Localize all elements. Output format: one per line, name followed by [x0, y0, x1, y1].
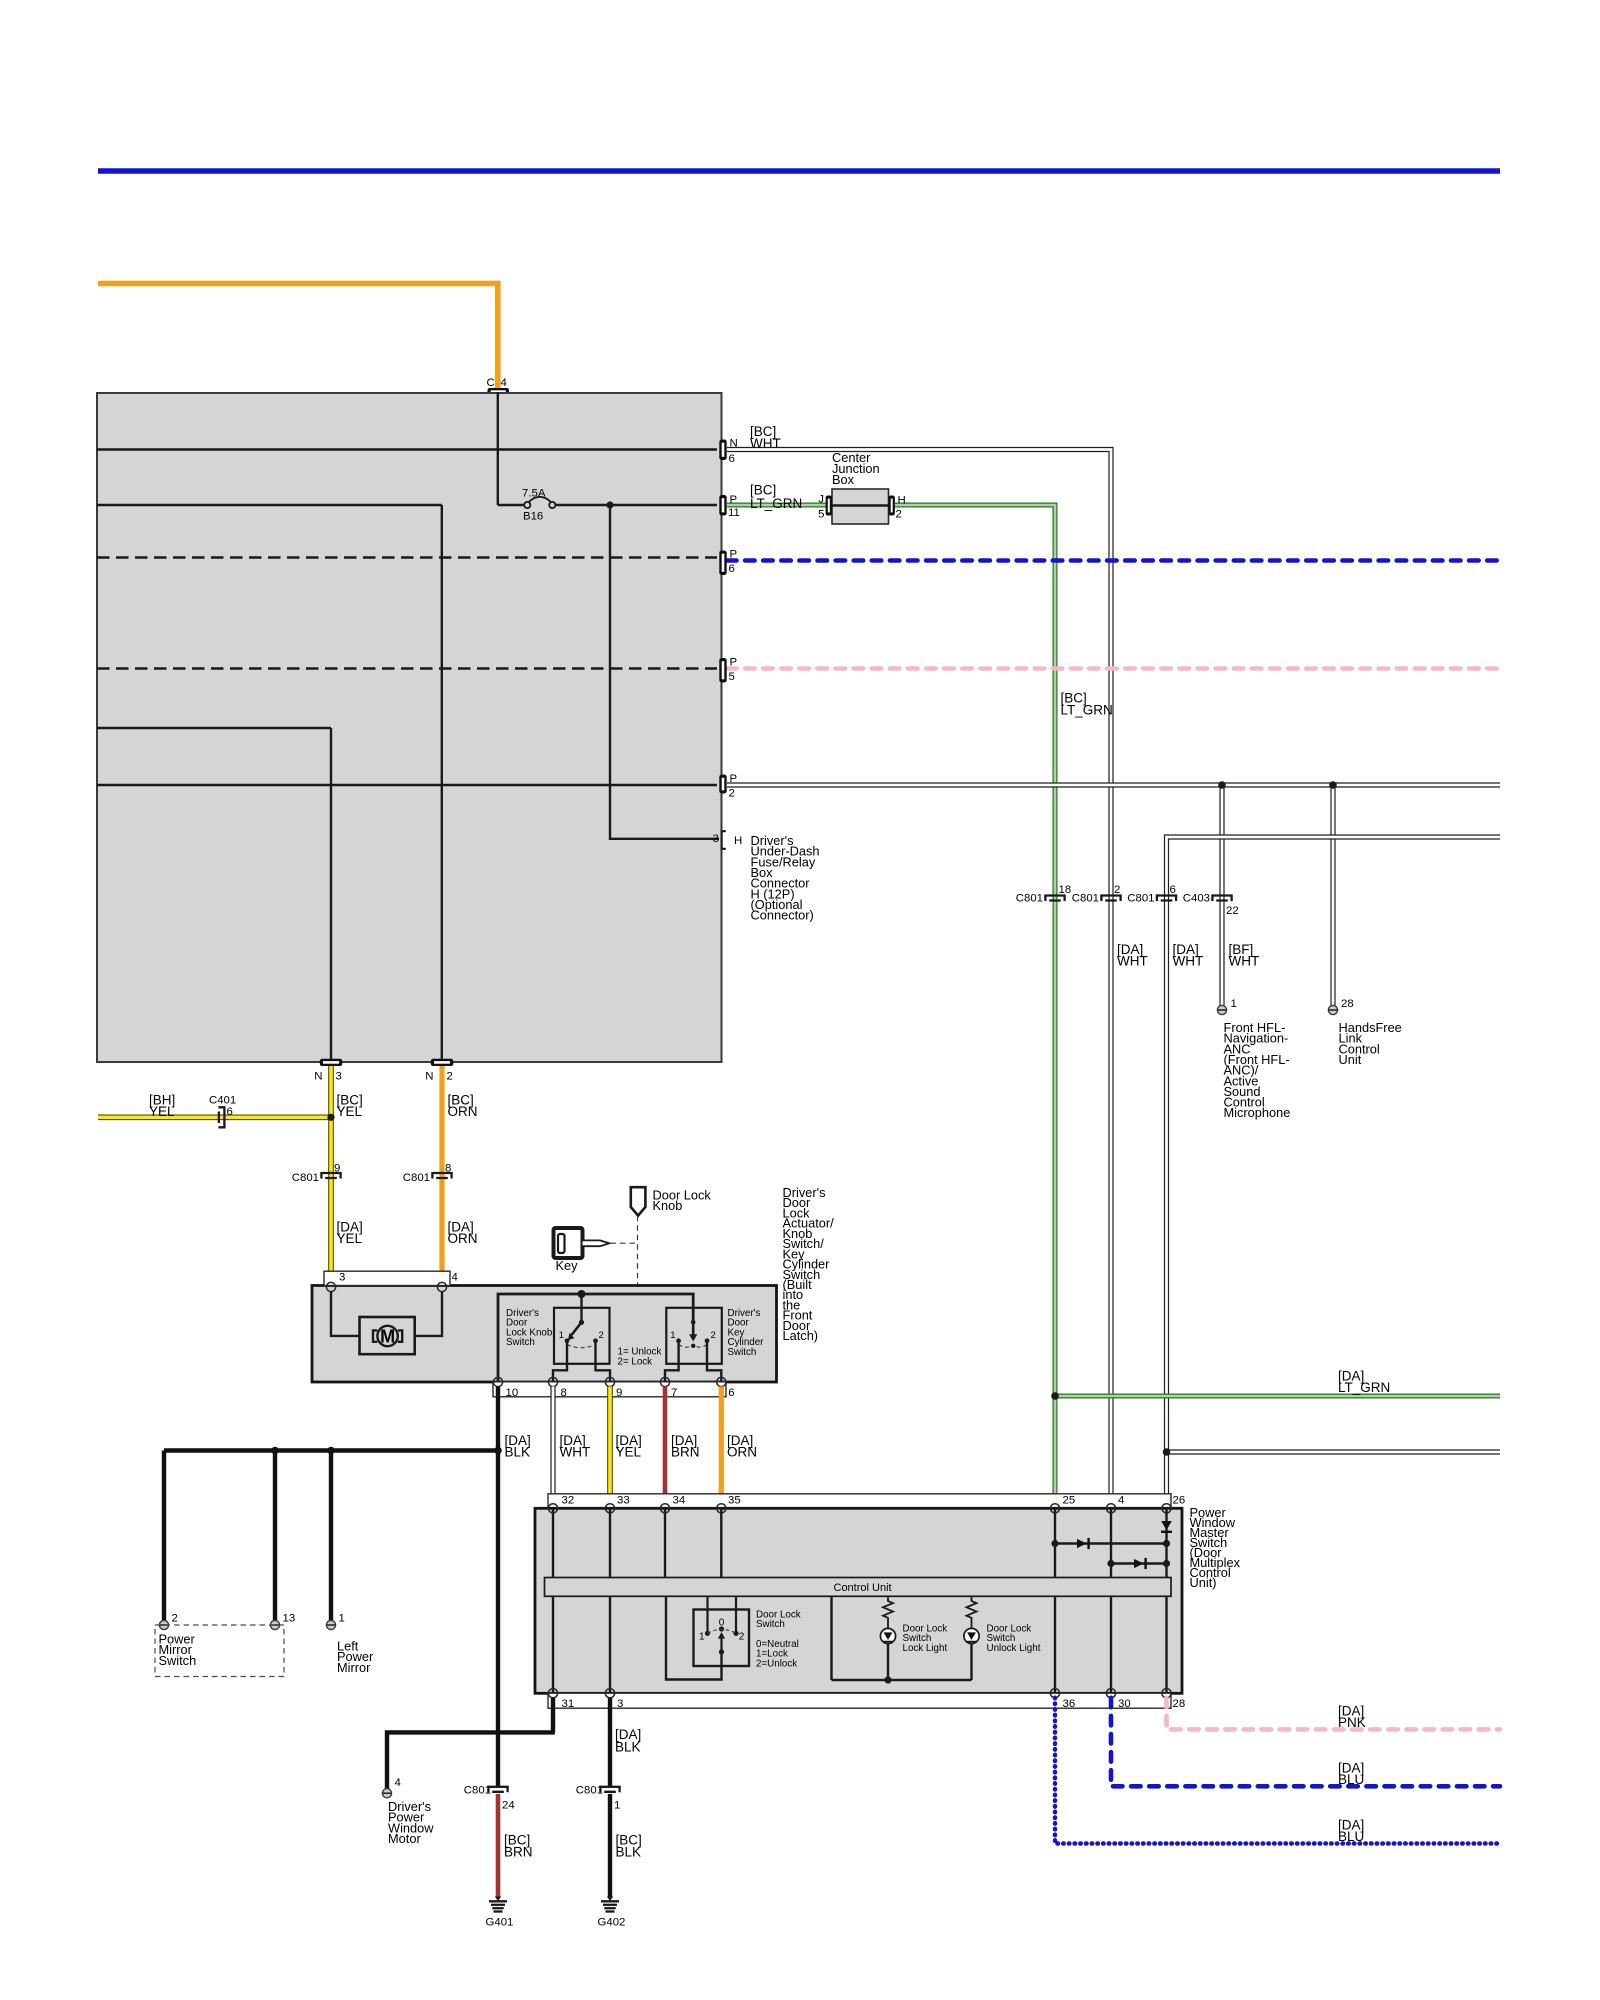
connector N pin 3: [314, 1059, 342, 1083]
pin 2: Power Mirror Switch: [159, 1613, 177, 1630]
wire: [BH] YEL horizontal: [98, 1115, 331, 1121]
wire: blue dashed from P6: [727, 558, 1500, 563]
connector C801 pin 24: [464, 1785, 515, 1812]
svg-text:5: 5: [818, 509, 824, 521]
diode D3 (pin 4 line to pin 26 line): [1107, 1558, 1170, 1569]
node: pin26 riser / right branch: [1163, 1448, 1171, 1456]
svg-text:WHT: WHT: [1229, 954, 1260, 969]
pin 3 (actuator): [326, 1282, 335, 1291]
wire: black ground bus to mirrors: [164, 1451, 498, 1621]
svg-text:J: J: [818, 494, 824, 506]
svg-text:YEL: YEL: [616, 1445, 642, 1460]
svg-text:7.5A: 7.5A: [522, 488, 546, 500]
label: Driver's Door Lock Knob Switch: [506, 1308, 553, 1348]
svg-text:2: 2: [172, 1613, 178, 1625]
svg-text:H: H: [734, 835, 742, 847]
node: bus/BLK riser: [494, 1447, 502, 1455]
connector P pin 6: [719, 549, 737, 576]
svg-text:C401: C401: [209, 1095, 236, 1107]
svg-text:LT_GRN: LT_GRN: [1338, 1380, 1390, 1395]
node: fuse output junction: [606, 501, 613, 508]
svg-text:N: N: [730, 438, 738, 450]
svg-text:ORN: ORN: [448, 1231, 478, 1246]
svg-text:Knob: Knob: [653, 1198, 683, 1213]
connector H pin 3 (bracket): [713, 831, 743, 849]
wire: pin 31 to driver's power window motor: [387, 1698, 555, 1789]
wire: orange feed to connector C4: [98, 284, 498, 389]
svg-text:9: 9: [334, 1163, 340, 1175]
svg-text:Connector): Connector): [751, 908, 814, 923]
svg-text:P: P: [730, 549, 738, 561]
pin 13: Power Mirror Switch: [270, 1613, 295, 1630]
pin 3 (master): [605, 1689, 614, 1698]
wire: [DA] BLK from pin 10 down: [496, 1387, 500, 1787]
svg-text:3: 3: [339, 1272, 345, 1284]
LED: Door Lock Switch Unlock Light: [964, 1628, 979, 1680]
control unit bar: [545, 1578, 1172, 1597]
svg-text:3: 3: [713, 833, 719, 845]
svg-text:2: 2: [1114, 884, 1120, 896]
svg-text:2=Unlock: 2=Unlock: [756, 1658, 797, 1669]
svg-text:36: 36: [1063, 1698, 1076, 1710]
LED: Door Lock Switch Lock Light: [880, 1628, 895, 1680]
svg-text:WHT: WHT: [750, 436, 781, 451]
connector P pin 11: [719, 494, 740, 519]
svg-text:Key: Key: [556, 1258, 579, 1273]
pin 32: [548, 1504, 557, 1513]
connector C801 pin 1: [576, 1785, 621, 1812]
wire: common from pin 10 to both switches: [498, 1294, 693, 1382]
connector N pin 2: [425, 1059, 453, 1083]
svg-text:C403: C403: [1183, 893, 1210, 905]
master switch bottom connector strip: [548, 1693, 1171, 1708]
svg-text:1: 1: [339, 1613, 345, 1625]
wire: [BC] ORN from N2 down: [439, 1066, 444, 1287]
svg-text:7: 7: [671, 1387, 677, 1399]
svg-text:BLK: BLK: [505, 1445, 531, 1460]
wire: [DA] LT_GRN branch to right: [1055, 1369, 1500, 1397]
svg-text:LT_GRN: LT_GRN: [750, 496, 802, 511]
pin 26: [1162, 1504, 1171, 1513]
svg-text:Mirror: Mirror: [337, 1660, 371, 1675]
svg-text:Unit: Unit: [1339, 1052, 1362, 1067]
svg-text:4: 4: [1118, 1495, 1124, 1507]
fuse box: Driver's Under-Dash Fuse/Relay Box: [97, 393, 722, 1062]
pin 9: [605, 1377, 614, 1386]
svg-text:24: 24: [502, 1800, 515, 1812]
ground G402: [598, 1897, 626, 1929]
key cylinder contacts: [676, 1338, 681, 1343]
svg-text:YEL: YEL: [337, 1231, 363, 1246]
svg-text:BRN: BRN: [671, 1445, 700, 1460]
wire: white branch to master switch pin 26: [1167, 837, 1501, 1506]
svg-text:28: 28: [1341, 998, 1354, 1010]
svg-text:WHT: WHT: [1117, 954, 1148, 969]
pin 7: [660, 1377, 669, 1386]
Center Junction Box: [832, 450, 889, 524]
connector C801 pin 18: [1016, 884, 1071, 905]
label: Driver's Door Lock Actuator / Knob Switch / Key Cylinder Switch: [783, 1185, 835, 1343]
actuator bottom connector strip: [493, 1382, 726, 1397]
wire: [DA] WHT pin8 to pin32: [553, 1387, 590, 1507]
wire: [DA] YEL pin9 to pin33: [610, 1387, 642, 1507]
node: P2 wire / HandsFree drop: [1329, 781, 1337, 789]
wire: [BC] WHT from N6 down to master switch pin 4: [727, 450, 1111, 1507]
door lock indicator circuit: [832, 1596, 972, 1680]
svg-text:C801: C801: [292, 1172, 319, 1184]
key cylinder switch sub-box: [666, 1308, 722, 1364]
svg-text:WHT: WHT: [1173, 954, 1204, 969]
svg-text:2: 2: [896, 509, 902, 521]
node: bus/pin13 drop: [271, 1447, 279, 1455]
svg-text:31: 31: [562, 1698, 575, 1710]
svg-text:28: 28: [1173, 1698, 1186, 1710]
svg-text:Switch: Switch: [506, 1337, 535, 1348]
node: green wire branch: [1051, 1392, 1059, 1400]
node: light circuit junction: [884, 1676, 891, 1683]
svg-text:1: 1: [670, 1330, 675, 1341]
connector P pin 2: [719, 773, 737, 800]
door lock actuator box: [312, 1286, 777, 1383]
svg-text:6: 6: [729, 453, 735, 465]
svg-text:3: 3: [617, 1698, 623, 1710]
wire: white drop to Front HFL microphone: [1219, 785, 1224, 1006]
wire: knob contact 1 to pin 8: [553, 1341, 567, 1382]
label: Door Lock Switch Lock Light: [903, 1624, 948, 1654]
svg-text:25: 25: [1063, 1495, 1076, 1507]
svg-text:P: P: [730, 494, 738, 506]
motor M1 (door lock actuator motor): [360, 1317, 415, 1354]
door lock knob icon: [631, 1187, 712, 1215]
knob switch contacts: [565, 1338, 570, 1343]
svg-text:Switch: Switch: [756, 1619, 785, 1630]
label: Door Lock Switch Unlock Light: [987, 1624, 1041, 1654]
label: Power Mirror Switch: [159, 1632, 197, 1668]
pin 1: Left Power Mirror: [326, 1613, 344, 1630]
svg-text:4: 4: [501, 377, 507, 389]
connector P pin 5: [719, 657, 737, 684]
wire: blue power bus (top): [98, 168, 1500, 174]
wire: [BC] LT_GRN from P11 to Center Junction Box: [727, 503, 826, 508]
svg-text:ORN: ORN: [448, 1104, 478, 1119]
pin 1: Front HFL microphone: [1217, 998, 1236, 1015]
wire: pin4 to motor: [415, 1292, 442, 1336]
svg-text:0: 0: [719, 1618, 725, 1629]
label: Power Window Master Switch (Door Multiplex Control Unit): [1190, 1505, 1241, 1590]
knob switch lever: [568, 1294, 584, 1340]
svg-text:6: 6: [728, 1387, 734, 1399]
connector C403 pin 22: [1183, 893, 1239, 918]
ground G401: [486, 1897, 514, 1929]
svg-text:BLK: BLK: [615, 1740, 641, 1755]
svg-text:PNK: PNK: [1338, 1715, 1366, 1730]
connector J pin 5: [818, 494, 832, 521]
wire: key contact 2 to pin 6: [707, 1341, 721, 1382]
svg-text:Latch): Latch): [783, 1328, 819, 1343]
key icon: [554, 1228, 610, 1273]
power window master switch box: [535, 1508, 1182, 1693]
svg-text:8: 8: [561, 1387, 567, 1399]
svg-text:34: 34: [673, 1495, 686, 1507]
wire: [DA] PNK dashed from pin 28: [1167, 1698, 1501, 1730]
svg-text:Switch: Switch: [728, 1347, 757, 1358]
pin 4 (actuator): [437, 1282, 446, 1291]
svg-text:C801: C801: [576, 1785, 603, 1797]
svg-text:G402: G402: [598, 1917, 626, 1929]
svg-text:BLU: BLU: [1338, 1829, 1364, 1844]
resistor R2 (unlock light): [967, 1596, 977, 1628]
svg-text:N: N: [425, 1071, 433, 1083]
svg-text:C801: C801: [1072, 893, 1099, 905]
svg-text:Microphone: Microphone: [1224, 1105, 1291, 1120]
pin 34: [660, 1504, 669, 1513]
svg-text:BRN: BRN: [504, 1844, 533, 1859]
svg-text:P: P: [730, 773, 738, 785]
dashed mechanical links (key / knob): [571, 1216, 693, 1332]
label: HandsFree Link Control Unit: [1339, 1020, 1402, 1067]
node: bus/pin1 drop: [327, 1447, 335, 1455]
svg-text:ORN: ORN: [727, 1445, 757, 1460]
master switch top connector strip: [548, 1494, 1171, 1509]
pin 30: [1106, 1689, 1115, 1698]
svg-text:Box: Box: [832, 472, 855, 487]
svg-text:WHT: WHT: [560, 1445, 591, 1460]
wire: pink dashed from P5: [727, 666, 1500, 671]
label: Driver's Power Window Motor: [388, 1799, 434, 1846]
wires: below control unit: [553, 1596, 1167, 1693]
label: Left Power Mirror: [337, 1639, 374, 1675]
svg-text:Control Unit: Control Unit: [834, 1582, 892, 1594]
svg-text:1: 1: [559, 1330, 564, 1341]
door lock switch sub-box: [694, 1596, 750, 1666]
svg-text:Unit): Unit): [1190, 1575, 1217, 1590]
wire: [DA] BRN pin7 to pin34: [665, 1387, 700, 1507]
svg-text:8: 8: [445, 1163, 451, 1175]
fuse 7.5A B16: [498, 488, 717, 523]
pin 28: HandsFree Link Control Unit: [1328, 998, 1353, 1015]
connector C401 pin 6: [209, 1095, 236, 1128]
wire: bus line to N3 drop: [97, 728, 331, 1059]
resistor R1 (lock light): [883, 1596, 893, 1628]
knob switch throw arc (dashed): [567, 1345, 596, 1348]
svg-text:YEL: YEL: [149, 1104, 175, 1119]
label: Driver's Door Key Cylinder Switch: [728, 1308, 765, 1358]
wire: [BC] LT_GRN from H2 down to master switch pin 25: [895, 505, 1055, 1506]
label: 1= Unlock 2= Lock: [618, 1347, 662, 1368]
svg-text:C801: C801: [1127, 893, 1154, 905]
node: switch common junction: [578, 1290, 586, 1298]
svg-text:Switch: Switch: [159, 1653, 197, 1668]
connector N pin 6: [719, 438, 737, 466]
svg-text:2= Lock: 2= Lock: [618, 1357, 653, 1368]
svg-text:35: 35: [728, 1495, 741, 1507]
svg-text:Lock Light: Lock Light: [903, 1643, 948, 1654]
connector C801 pin 6: [1127, 884, 1176, 905]
svg-text:2: 2: [739, 1632, 745, 1643]
svg-text:1: 1: [699, 1632, 705, 1643]
svg-text:Motor: Motor: [388, 1831, 421, 1846]
connector C801 pin 9: [292, 1163, 341, 1185]
svg-text:3: 3: [336, 1071, 342, 1083]
svg-text:BLU: BLU: [1338, 1772, 1364, 1787]
wire: bus line to N2 drop: [97, 505, 442, 1059]
pin 36: [1050, 1689, 1059, 1698]
pin 28: [1162, 1689, 1171, 1698]
wire: dashed bus line to P5: [97, 667, 717, 669]
wire: white drop to HandsFree Link Control Unit: [1330, 785, 1335, 1006]
wire: door lock switch common return: [666, 1596, 722, 1679]
key cylinder throw arcs (dashed): [679, 1345, 707, 1348]
power mirror switch (dashed outline): [155, 1625, 284, 1677]
wire: [BC] BRN to ground: [498, 1794, 533, 1897]
svg-text:4: 4: [452, 1272, 458, 1284]
wire: key contact 1 to pin 7: [665, 1341, 679, 1382]
svg-text:P: P: [730, 657, 738, 669]
svg-text:9: 9: [616, 1387, 622, 1399]
node: yellow junction: [327, 1114, 334, 1121]
svg-text:6: 6: [729, 563, 735, 575]
connector C801 pin 2: [1072, 884, 1121, 905]
pin 31: [548, 1689, 557, 1698]
svg-text:LT_GRN: LT_GRN: [1061, 703, 1113, 718]
wire: knob contact 2 to pin 9: [596, 1341, 611, 1382]
svg-text:32: 32: [562, 1495, 575, 1507]
knob switch sub-box: [554, 1308, 610, 1364]
node: P2 wire / HFL drop: [1218, 781, 1226, 789]
svg-text:C801: C801: [1016, 893, 1043, 905]
svg-text:4: 4: [395, 1777, 401, 1789]
pin 35: [717, 1504, 726, 1513]
connector C4: [487, 377, 510, 395]
pin 8: [548, 1377, 557, 1386]
svg-text:C: C: [487, 377, 495, 389]
svg-text:Unlock Light: Unlock Light: [987, 1643, 1041, 1654]
diode D2 (pin 25 line to pin 26 line): [1051, 1538, 1170, 1549]
svg-text:18: 18: [1059, 884, 1072, 896]
svg-text:B16: B16: [523, 511, 543, 523]
svg-text:10: 10: [506, 1387, 519, 1399]
wire: bus line to P2: [97, 784, 717, 786]
wires: pins 25/4/26 to control unit: [1055, 1508, 1167, 1578]
svg-text:M: M: [380, 1327, 395, 1347]
wire: pin3 to motor: [331, 1292, 360, 1336]
svg-text:33: 33: [617, 1495, 630, 1507]
label: Door Lock Switch positions: [756, 1610, 801, 1670]
svg-text:N: N: [314, 1071, 322, 1083]
wire: from C4 down to fuse: [497, 392, 499, 505]
svg-text:22: 22: [1226, 905, 1239, 917]
svg-text:2: 2: [447, 1071, 453, 1083]
wire: dashed bus line to P6: [97, 556, 717, 558]
wire: [DA] BLU dashed from pin 30: [1111, 1698, 1500, 1787]
pin 33: [605, 1504, 614, 1513]
label: Front HFL-Navigation-ANC ...: [1224, 1020, 1291, 1120]
svg-text:2: 2: [599, 1330, 604, 1341]
wire: node down to H3 connector: [610, 505, 719, 839]
svg-text:13: 13: [283, 1613, 296, 1625]
svg-text:1: 1: [614, 1800, 620, 1812]
svg-text:H: H: [898, 495, 906, 507]
svg-text:C801: C801: [464, 1785, 491, 1797]
wire: [DA] BLK pin 3 down: [610, 1698, 641, 1786]
actuator top connector strip: [324, 1271, 450, 1285]
pin 10: [493, 1377, 502, 1386]
wire: [DA] BLU dotted from pin 36: [1055, 1698, 1500, 1844]
svg-text:2: 2: [711, 1330, 716, 1341]
wire: bus line to N6: [97, 448, 717, 450]
connector H pin 2: [889, 495, 906, 521]
svg-text:6: 6: [227, 1106, 233, 1118]
svg-text:1: 1: [1231, 998, 1237, 1010]
svg-text:6: 6: [1170, 884, 1176, 896]
wires: pins 32-35 to control unit: [553, 1508, 721, 1578]
svg-text:11: 11: [728, 507, 740, 519]
label: Driver's Under-Dash Fuse/Relay Box Connector H: [751, 833, 820, 923]
svg-text:BLK: BLK: [616, 1844, 642, 1859]
pin 6: [717, 1377, 726, 1386]
pin 25: [1050, 1504, 1059, 1513]
pin 4: Driver's Power Window Motor: [382, 1777, 400, 1798]
pin 4: [1106, 1504, 1115, 1513]
wire: white from P2 to right edge: [727, 782, 1500, 787]
diode D1 (vertical, on pin 26 line): [1161, 1521, 1172, 1532]
svg-text:2: 2: [729, 788, 735, 800]
svg-text:YEL: YEL: [337, 1104, 363, 1119]
wire: [BC] BLK to ground: [610, 1794, 642, 1897]
wire: [DA] ORN pin6 to pin35: [721, 1387, 757, 1507]
wire: [BC] YEL from N3 down: [328, 1066, 334, 1287]
connector C801 pin 8: [403, 1163, 452, 1185]
svg-text:C801: C801: [403, 1172, 430, 1184]
key cylinder lever (arrow down): [689, 1320, 697, 1348]
svg-text:26: 26: [1173, 1495, 1186, 1507]
svg-text:5: 5: [729, 671, 735, 683]
svg-text:30: 30: [1118, 1698, 1131, 1710]
svg-text:G401: G401: [486, 1917, 514, 1929]
